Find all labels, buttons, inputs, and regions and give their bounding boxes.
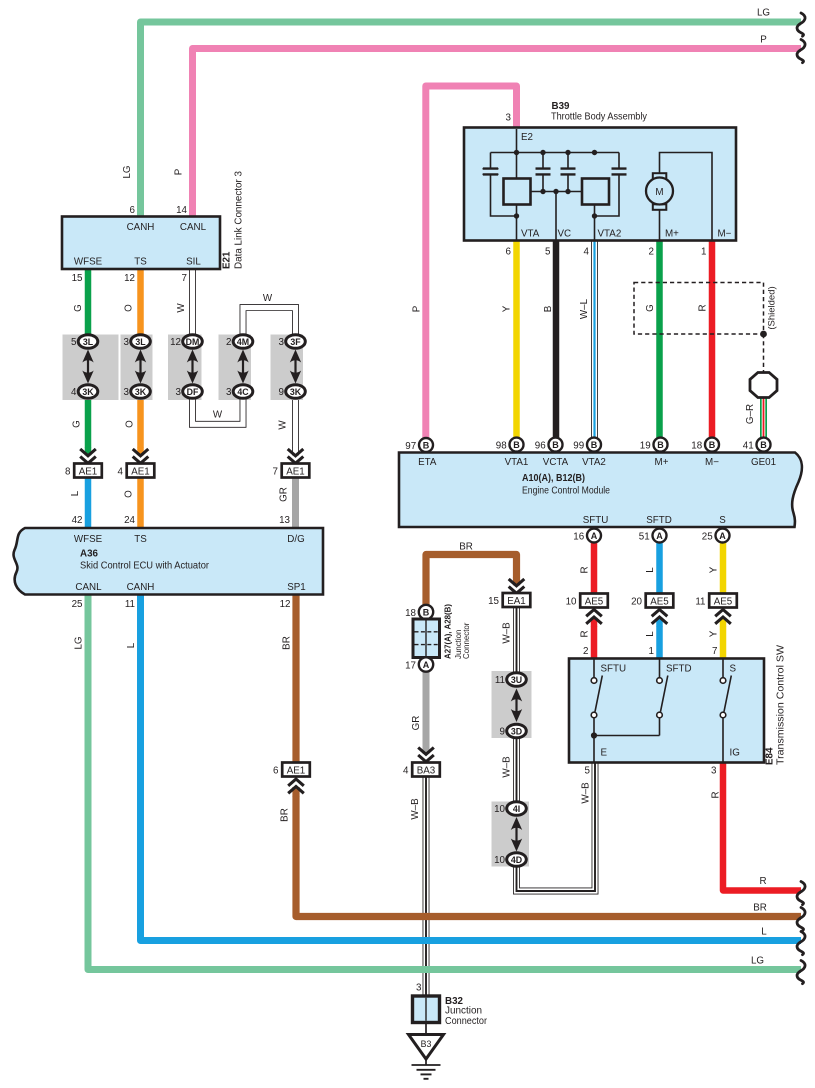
- svg-text:AE5: AE5: [650, 597, 669, 608]
- svg-text:19: 19: [640, 441, 651, 452]
- motor M housing: [653, 173, 667, 179]
- ground stem: [425, 1058, 427, 1065]
- junction connector B32 block: [413, 996, 440, 1023]
- svg-text:VC: VC: [558, 229, 572, 240]
- switch S: [723, 659, 731, 763]
- svg-text:13: 13: [279, 515, 290, 526]
- svg-text:11: 11: [125, 599, 135, 610]
- svg-text:AE1: AE1: [79, 467, 98, 478]
- wire LG from E21 CANH to right edge: [141, 22, 802, 217]
- B39 capacitor 1: [483, 153, 517, 217]
- wire B B39 VC to ECM VCTA: [553, 240, 560, 439]
- svg-text:3U: 3U: [511, 675, 522, 685]
- svg-text:A: A: [656, 531, 663, 541]
- connector AE1 pin 8: [74, 464, 102, 478]
- svg-text:7: 7: [182, 273, 187, 284]
- junction block shading (3F/3K): [271, 335, 304, 401]
- svg-text:CANH: CANH: [127, 222, 155, 233]
- svg-text:11: 11: [495, 675, 505, 686]
- svg-text:W–L: W–L: [579, 298, 590, 319]
- wire Y AE5 to E84 pin 7: [720, 607, 727, 659]
- svg-text:W: W: [278, 420, 289, 430]
- component B39 Throttle Body Assembly box: [464, 128, 736, 241]
- wire BR A36 SP1 to right edge: [296, 595, 801, 917]
- wire W 3K to AE1 pin 7: [292, 400, 299, 449]
- shield drain dashed: [763, 334, 765, 373]
- connector AE5 pin 11: [709, 594, 737, 608]
- chevron below AE1 pin 6: [286, 776, 306, 797]
- svg-text:Y: Y: [709, 566, 720, 573]
- svg-text:51: 51: [639, 532, 650, 543]
- svg-text:98: 98: [496, 441, 507, 452]
- svg-text:R: R: [697, 304, 708, 311]
- svg-text:3K: 3K: [135, 387, 147, 397]
- svg-text:3: 3: [416, 983, 422, 994]
- svg-text:AE1: AE1: [286, 467, 305, 478]
- svg-text:VTA: VTA: [521, 229, 540, 240]
- B39 pin3 to sensor 1: [516, 129, 518, 179]
- chevron into AE1 pin 4: [131, 448, 151, 465]
- svg-text:(Shielded): (Shielded): [767, 286, 778, 329]
- svg-text:DM: DM: [186, 337, 200, 347]
- svg-text:4I: 4I: [513, 804, 520, 814]
- wire O AE1 to A36 TS pin 24: [137, 477, 144, 529]
- B39 junction dot 1: [514, 150, 519, 155]
- svg-text:9: 9: [279, 387, 284, 398]
- svg-text:WFSE: WFSE: [74, 534, 103, 545]
- svg-text:AE1: AE1: [131, 467, 150, 478]
- svg-text:Transmission Control SW: Transmission Control SW: [776, 644, 787, 765]
- arrow 3U-3D: [515, 697, 517, 715]
- svg-text:W–B: W–B: [502, 622, 513, 644]
- wire R E84 IG to right edge: [723, 763, 801, 891]
- svg-text:O: O: [124, 490, 135, 498]
- junction block shading (DM/DF): [168, 335, 202, 401]
- svg-text:D/G: D/G: [287, 534, 304, 545]
- pin 98 VTA1: [510, 438, 524, 452]
- svg-text:A36: A36: [80, 549, 99, 560]
- svg-text:E21: E21: [222, 251, 233, 269]
- arrow 3L-3K: [87, 358, 89, 376]
- svg-text:O: O: [125, 420, 136, 428]
- connector 3K pin 4: [78, 385, 98, 399]
- svg-text:CANL: CANL: [180, 222, 207, 233]
- svg-text:12: 12: [124, 273, 135, 284]
- shield junction dot: [760, 331, 767, 338]
- connector 3U pin 11: [507, 673, 527, 687]
- pin 41 GE01: [757, 438, 771, 452]
- svg-text:M: M: [655, 187, 663, 198]
- svg-text:GE01: GE01: [751, 457, 776, 468]
- svg-text:B: B: [423, 440, 430, 450]
- junction block shading (3L/3K) 2: [121, 335, 153, 401]
- svg-text:Connector: Connector: [445, 1016, 488, 1027]
- B39 junction dot 9: [592, 213, 597, 218]
- svg-text:E2: E2: [521, 132, 533, 143]
- switch SFTD: [660, 659, 668, 736]
- svg-text:Data Link Connector 3: Data Link Connector 3: [234, 170, 245, 269]
- svg-text:AE5: AE5: [714, 597, 733, 608]
- svg-text:SFTD: SFTD: [646, 515, 672, 526]
- svg-text:96: 96: [535, 441, 546, 452]
- svg-text:G: G: [73, 304, 84, 312]
- svg-text:6: 6: [506, 247, 512, 258]
- connector 4M pin 2: [233, 335, 253, 349]
- svg-text:W–B: W–B: [502, 756, 513, 778]
- svg-text:11: 11: [695, 597, 705, 608]
- wire O 3K to AE1 pin 4: [137, 400, 144, 449]
- connector 3L pin 5: [78, 335, 98, 349]
- wire W loop 4M to 3F: [243, 308, 296, 336]
- chevron into BA3: [416, 747, 436, 764]
- svg-text:W–B: W–B: [410, 798, 421, 820]
- svg-text:B: B: [657, 440, 664, 450]
- wire W-B EA1 to 3U: [513, 607, 520, 673]
- connector DF pin 3: [183, 385, 203, 399]
- svg-text:CANH: CANH: [127, 582, 155, 593]
- connector AE1 pin 6: [282, 763, 310, 777]
- svg-text:B: B: [543, 305, 554, 312]
- svg-text:BR: BR: [280, 808, 291, 822]
- connector 3D pin 9: [507, 724, 527, 738]
- svg-text:4C: 4C: [237, 387, 249, 397]
- svg-text:5: 5: [71, 337, 77, 348]
- svg-text:W: W: [263, 293, 273, 304]
- B39 junction dot 5: [540, 189, 545, 194]
- B39 junction dot 4: [592, 150, 597, 155]
- curl LG right: [797, 961, 805, 984]
- svg-text:TS: TS: [134, 257, 147, 268]
- svg-text:3: 3: [176, 387, 182, 398]
- svg-text:B39: B39: [552, 101, 571, 112]
- chevron into AE1 pin 7: [286, 448, 306, 465]
- wire L A36 CANH to right edge: [141, 595, 802, 941]
- pin 25 S: [716, 529, 730, 543]
- svg-text:O: O: [124, 304, 135, 312]
- svg-text:VTA2: VTA2: [598, 229, 622, 240]
- B39 sensor 2 to VTA2: [594, 204, 596, 240]
- ECU A36 Skid Control ECU with Actuator: [14, 528, 323, 595]
- svg-text:BA3: BA3: [417, 766, 436, 777]
- svg-text:A: A: [591, 531, 598, 541]
- chevron into AE1 pin 8: [78, 448, 98, 465]
- svg-text:SP1: SP1: [287, 582, 306, 593]
- B39 VC line: [555, 192, 557, 241]
- svg-text:3: 3: [124, 337, 130, 348]
- wire Y B39 VTA to ECM VTA1: [513, 240, 520, 439]
- B39 junction dot 8: [514, 213, 519, 218]
- ground hatching: [412, 1064, 441, 1066]
- svg-text:EA1: EA1: [507, 596, 526, 607]
- wire GR junction A to BA3: [423, 671, 430, 763]
- connector 3L pin 3: [131, 335, 151, 349]
- svg-text:G: G: [72, 420, 83, 428]
- svg-text:4D: 4D: [511, 855, 522, 865]
- svg-text:M+: M+: [655, 457, 669, 468]
- svg-text:A: A: [719, 531, 726, 541]
- svg-text:Y: Y: [709, 630, 720, 637]
- curl R right: [797, 882, 805, 905]
- svg-text:3: 3: [279, 337, 285, 348]
- svg-text:8: 8: [65, 467, 71, 478]
- svg-text:3: 3: [226, 387, 232, 398]
- svg-text:BR: BR: [459, 542, 473, 553]
- connector 3K pin 3: [131, 385, 151, 399]
- svg-text:24: 24: [124, 515, 135, 526]
- svg-text:99: 99: [573, 441, 584, 452]
- connector AE5 pin 20: [646, 594, 674, 608]
- svg-text:LG: LG: [74, 636, 85, 649]
- B39 internal bus: [491, 152, 620, 154]
- B39 junction dot 7: [565, 189, 570, 194]
- svg-text:W: W: [176, 303, 187, 313]
- switch E84 Transmission Control SW box: [569, 659, 764, 763]
- svg-text:SFTU: SFTU: [601, 664, 627, 675]
- svg-text:B3: B3: [421, 1039, 432, 1049]
- ground B3 triangle: [409, 1035, 444, 1060]
- svg-text:G: G: [645, 304, 656, 312]
- arrow 4I-4D: [515, 825, 517, 844]
- B39 junction dot 3: [565, 150, 570, 155]
- connector 3K pin 9: [286, 385, 306, 399]
- wire L AE5 to E84 pin 1: [656, 607, 663, 659]
- B39 sensor 1 to VTA: [516, 204, 518, 240]
- pin 18 B circle: [419, 605, 433, 619]
- E84 E bus: [594, 735, 660, 737]
- connector AE5 pin 10: [580, 594, 608, 608]
- junction block shading (3L/3K): [63, 335, 119, 401]
- svg-text:G–R: G–R: [745, 404, 756, 424]
- svg-text:B: B: [552, 440, 559, 450]
- svg-text:CANL: CANL: [75, 582, 102, 593]
- svg-text:3L: 3L: [135, 337, 146, 347]
- svg-text:VTA1: VTA1: [505, 457, 529, 468]
- svg-text:12: 12: [170, 337, 181, 348]
- svg-text:42: 42: [72, 515, 83, 526]
- svg-text:16: 16: [573, 532, 584, 543]
- motor M: [646, 178, 673, 205]
- svg-text:2: 2: [226, 337, 231, 348]
- junction block shading (3U/3D): [492, 671, 532, 738]
- curl BR right: [797, 908, 805, 931]
- svg-text:7: 7: [273, 467, 278, 478]
- chevron into EA1: [507, 578, 527, 595]
- svg-text:2: 2: [583, 646, 588, 657]
- motor M wiring: [660, 153, 713, 241]
- svg-text:20: 20: [631, 597, 642, 608]
- pin 99 VTA2: [587, 438, 601, 452]
- wire P ECM ETA to B39 pin 3: [426, 86, 517, 440]
- chevron below AE5 pin 10: [584, 606, 604, 627]
- svg-text:AE1: AE1: [287, 766, 306, 777]
- connector AE1 pin 4: [127, 464, 155, 478]
- connector 4C pin 3: [233, 385, 253, 399]
- connector E21 Data Link Connector 3: [62, 217, 220, 270]
- svg-text:M−: M−: [718, 229, 732, 240]
- B39 junction dot 2: [540, 150, 545, 155]
- svg-text:5: 5: [585, 766, 591, 777]
- svg-text:3: 3: [506, 113, 512, 124]
- svg-text:3: 3: [711, 766, 717, 777]
- pin 51 SFTD: [653, 529, 667, 543]
- svg-text:17: 17: [405, 661, 416, 672]
- connector 3F pin 3: [286, 335, 306, 349]
- pin 18 M-: [705, 438, 719, 452]
- B39 sensor element 1: [504, 179, 531, 205]
- B39 junction dot 6: [553, 189, 558, 194]
- wire B32 to ground: [425, 1023, 427, 1035]
- ECM A10 B12 Engine Control Module box: [399, 453, 802, 528]
- B39 capacitor 2: [542, 153, 544, 192]
- wire L AE1 to A36 WFSE pin 42: [85, 477, 92, 529]
- wire W-B 3D to 4I: [513, 738, 520, 802]
- svg-text:P: P: [412, 305, 423, 312]
- svg-text:SFTD: SFTD: [666, 664, 692, 675]
- pin 96 VCTA: [549, 438, 563, 452]
- svg-text:Throttle Body Assembly: Throttle Body Assembly: [551, 112, 647, 123]
- svg-text:7: 7: [712, 646, 717, 657]
- svg-text:Skid Control ECU with Actuator: Skid Control ECU with Actuator: [80, 561, 210, 572]
- svg-text:M+: M+: [665, 229, 679, 240]
- arrow 3F-3K: [294, 358, 296, 376]
- svg-text:10: 10: [494, 855, 505, 866]
- svg-text:12: 12: [280, 599, 291, 610]
- connector AE1 pin 7: [282, 464, 310, 478]
- arrow 4M-4C: [242, 358, 244, 376]
- connector 4D pin 10: [507, 853, 527, 867]
- svg-text:9: 9: [500, 727, 505, 738]
- E84 E bus dot: [591, 732, 597, 738]
- switch SFTU: [594, 659, 602, 763]
- wire W-B 4D to E84 pin 5: [517, 763, 596, 892]
- B39 capacitor 3: [567, 153, 569, 192]
- connector 4I pin 10: [507, 802, 527, 816]
- svg-text:18: 18: [405, 608, 416, 619]
- svg-text:E: E: [601, 748, 608, 759]
- svg-text:B: B: [709, 440, 716, 450]
- wire G E21 WFSE pin 15 to 3L: [85, 269, 92, 335]
- svg-text:25: 25: [702, 532, 713, 543]
- svg-text:SIL: SIL: [186, 257, 201, 268]
- pin 19 M+: [654, 438, 668, 452]
- curl LG top right: [797, 13, 805, 36]
- svg-text:R: R: [759, 876, 766, 887]
- svg-text:TS: TS: [134, 534, 147, 545]
- svg-text:L: L: [70, 490, 81, 496]
- svg-text:A10(A), B12(B): A10(A), B12(B): [522, 473, 585, 484]
- svg-text:A: A: [423, 660, 430, 670]
- svg-text:14: 14: [176, 205, 187, 216]
- wire BR junction B to EA1: [426, 555, 517, 607]
- junction block shading (4M/4C): [219, 335, 252, 401]
- wire R AE5 to E84 pin 2: [591, 607, 598, 659]
- svg-text:P: P: [760, 35, 767, 46]
- svg-text:41: 41: [743, 441, 754, 452]
- svg-text:B: B: [513, 440, 520, 450]
- svg-text:25: 25: [72, 599, 83, 610]
- svg-text:B: B: [760, 440, 767, 450]
- svg-text:15: 15: [72, 273, 83, 284]
- svg-text:VCTA: VCTA: [543, 457, 569, 468]
- arrow DM-DF: [191, 358, 193, 376]
- shield octagon: [750, 373, 777, 398]
- svg-text:IG: IG: [730, 748, 740, 759]
- svg-text:3K: 3K: [82, 387, 94, 397]
- svg-text:SFTU: SFTU: [583, 515, 609, 526]
- arrow 3L-3K b: [139, 358, 141, 376]
- svg-text:Y: Y: [502, 305, 513, 312]
- svg-text:10: 10: [494, 804, 505, 815]
- wire Y ECM S to AE5: [720, 541, 727, 595]
- connector EA1 pin 15: [503, 593, 531, 607]
- svg-text:W: W: [213, 410, 223, 421]
- svg-text:3: 3: [124, 387, 130, 398]
- svg-text:GR: GR: [411, 716, 422, 731]
- wire W loop DF to 4C: [193, 399, 244, 424]
- wire P from E21 CANL to right edge: [193, 49, 802, 217]
- svg-text:BR: BR: [282, 636, 293, 650]
- junction connector A27 A28 block: [413, 619, 440, 658]
- connector BA3 pin 4: [412, 763, 440, 777]
- wire G 3K to AE1 pin 8: [85, 400, 92, 449]
- svg-text:L: L: [645, 631, 656, 637]
- svg-text:4: 4: [71, 387, 77, 398]
- pin 17 A circle: [419, 657, 433, 671]
- svg-text:AE5: AE5: [585, 597, 604, 608]
- svg-text:ETA: ETA: [418, 457, 437, 468]
- svg-text:4: 4: [403, 766, 409, 777]
- svg-text:R: R: [580, 566, 591, 573]
- wire W-L B39 VTA2 to ECM VTA2: [591, 240, 598, 439]
- svg-text:Connector: Connector: [462, 622, 471, 659]
- svg-text:2: 2: [649, 247, 654, 258]
- pin 16 SFTU: [587, 529, 601, 543]
- svg-text:S: S: [730, 664, 737, 675]
- chevron below AE5 pin 20: [650, 606, 670, 627]
- wire W-B BA3 to B32: [423, 777, 430, 997]
- svg-text:1: 1: [701, 247, 706, 258]
- svg-text:W–B: W–B: [581, 782, 592, 804]
- svg-text:VTA2: VTA2: [582, 457, 606, 468]
- svg-text:3F: 3F: [290, 337, 301, 347]
- wire O E21 TS pin 12 to 3L: [137, 269, 144, 335]
- svg-text:R: R: [711, 791, 722, 798]
- svg-text:3D: 3D: [511, 727, 522, 737]
- curl P top right: [797, 40, 805, 63]
- junction block shading (4I/4D): [492, 802, 530, 867]
- curl L right: [797, 932, 805, 955]
- svg-text:Junction: Junction: [445, 1006, 482, 1017]
- svg-text:BR: BR: [753, 903, 767, 914]
- wire R ECM SFTU to AE5: [591, 541, 598, 595]
- svg-text:15: 15: [488, 596, 499, 607]
- wire LG A36 CANL to right edge: [88, 595, 801, 970]
- svg-text:S: S: [719, 515, 726, 526]
- connector DM pin 12: [183, 335, 203, 349]
- wire GR AE1 to A36 D/G pin 13: [292, 477, 299, 529]
- wire G-R shield to ECM GE01: [760, 397, 767, 439]
- B39 sensor element 2: [582, 179, 609, 205]
- svg-text:LG: LG: [122, 165, 133, 178]
- svg-text:18: 18: [691, 441, 702, 452]
- shield dashed box: [634, 283, 764, 335]
- svg-text:6: 6: [273, 766, 279, 777]
- svg-text:DF: DF: [187, 387, 199, 397]
- svg-text:Engine Control Module: Engine Control Module: [522, 486, 610, 497]
- svg-text:GR: GR: [279, 487, 290, 502]
- svg-text:WFSE: WFSE: [74, 257, 103, 268]
- svg-text:A27(A), A28(B): A27(A), A28(B): [444, 604, 453, 659]
